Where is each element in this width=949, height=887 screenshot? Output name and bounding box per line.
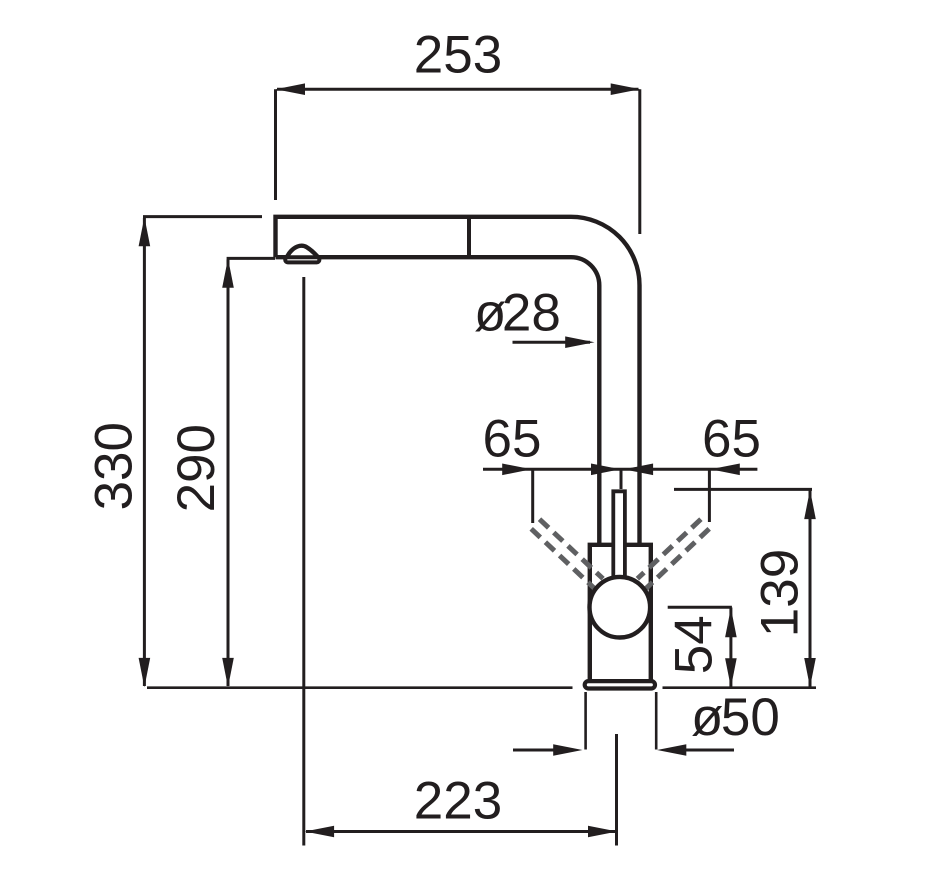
shank right line — [655, 692, 658, 750]
dim d28 label — [474, 284, 561, 343]
dim 139 line — [809, 490, 812, 687]
dim 253 extension right — [638, 89, 641, 234]
dim 54 arrow up — [725, 608, 737, 637]
svg-text:ø50: ø50 — [691, 688, 780, 747]
counter line right — [663, 686, 817, 689]
dim 223 arrow right — [588, 826, 617, 838]
dim 330 arrow down — [139, 658, 151, 687]
svg-text:253: 253 — [414, 26, 502, 85]
dim 65 center tick — [620, 469, 623, 489]
dim 65 arrow at right extension — [711, 464, 740, 476]
dim 139 arrow down — [804, 658, 816, 687]
svg-text:65: 65 — [483, 410, 542, 469]
dim 223 extension left (aerator centerline) — [302, 277, 305, 846]
dim 330 reference line — [143, 215, 262, 218]
dim 223 extension right (base centerline) — [615, 734, 618, 846]
dim 223 line — [306, 830, 616, 833]
dim 223 label — [414, 772, 502, 831]
dim 330 line — [143, 218, 146, 686]
aerator dome — [287, 246, 319, 258]
dim 65 arrow left-center — [591, 464, 620, 476]
dim 253 arrow left — [276, 83, 305, 95]
dim 290 arrow up — [222, 258, 234, 287]
dim 290 reference line — [227, 257, 275, 260]
dim 253 label — [414, 26, 502, 85]
svg-text:54: 54 — [665, 615, 724, 674]
dim 65 extension right — [708, 469, 711, 522]
dim 253 line — [277, 88, 639, 91]
dim 330 arrow up — [139, 217, 151, 246]
handle body — [590, 545, 651, 681]
svg-text:290: 290 — [167, 424, 226, 512]
lever rod — [613, 491, 625, 580]
base flange — [585, 681, 655, 688]
dim d50 label — [691, 688, 780, 747]
dim 290 line — [227, 260, 230, 687]
dim 65 right label — [702, 410, 761, 469]
svg-text:223: 223 — [414, 772, 502, 831]
lever rotated position dashed right — [637, 519, 709, 590]
dim 253 extension left — [274, 89, 277, 200]
shank left line — [584, 692, 587, 750]
svg-text:139: 139 — [751, 549, 810, 637]
dim 65 extension left — [531, 469, 534, 523]
dim 139 reference line — [674, 488, 812, 491]
faucet spout inner outline — [276, 257, 600, 545]
dim 290 arrow down — [222, 658, 234, 687]
dim 65 arrow at left extension — [502, 464, 531, 476]
dim 139 label (rotated) — [751, 549, 810, 637]
dim 54 arrow down — [725, 658, 737, 687]
dim 54 reference line — [668, 606, 732, 609]
dim 54 label (rotated) — [665, 615, 724, 674]
handle ball — [590, 577, 651, 638]
svg-text:65: 65 — [702, 410, 761, 469]
dim 253 arrow right — [611, 83, 640, 95]
dim d28 leader arrow — [513, 341, 591, 344]
dim 65 arrow right-center — [624, 464, 653, 476]
counter line left — [147, 686, 573, 689]
dim d50 arrow left — [513, 749, 556, 752]
aerator base bar — [285, 257, 319, 262]
svg-text:ø28: ø28 — [474, 284, 561, 343]
dim 65 left label — [483, 410, 542, 469]
lever rotated position dashed left — [531, 519, 603, 590]
dim 65 line — [483, 468, 757, 471]
faucet spout outer outline — [276, 217, 640, 545]
dim 139 arrow up — [804, 490, 816, 519]
dim d50 arrow right — [686, 749, 734, 752]
svg-text:330: 330 — [85, 422, 144, 510]
dim 290 label (rotated) — [167, 424, 226, 512]
dim 54 line — [729, 608, 732, 688]
dim 330 label (rotated) — [85, 422, 144, 510]
spout divider line — [467, 217, 471, 257]
dim 223 arrow left — [305, 826, 334, 838]
